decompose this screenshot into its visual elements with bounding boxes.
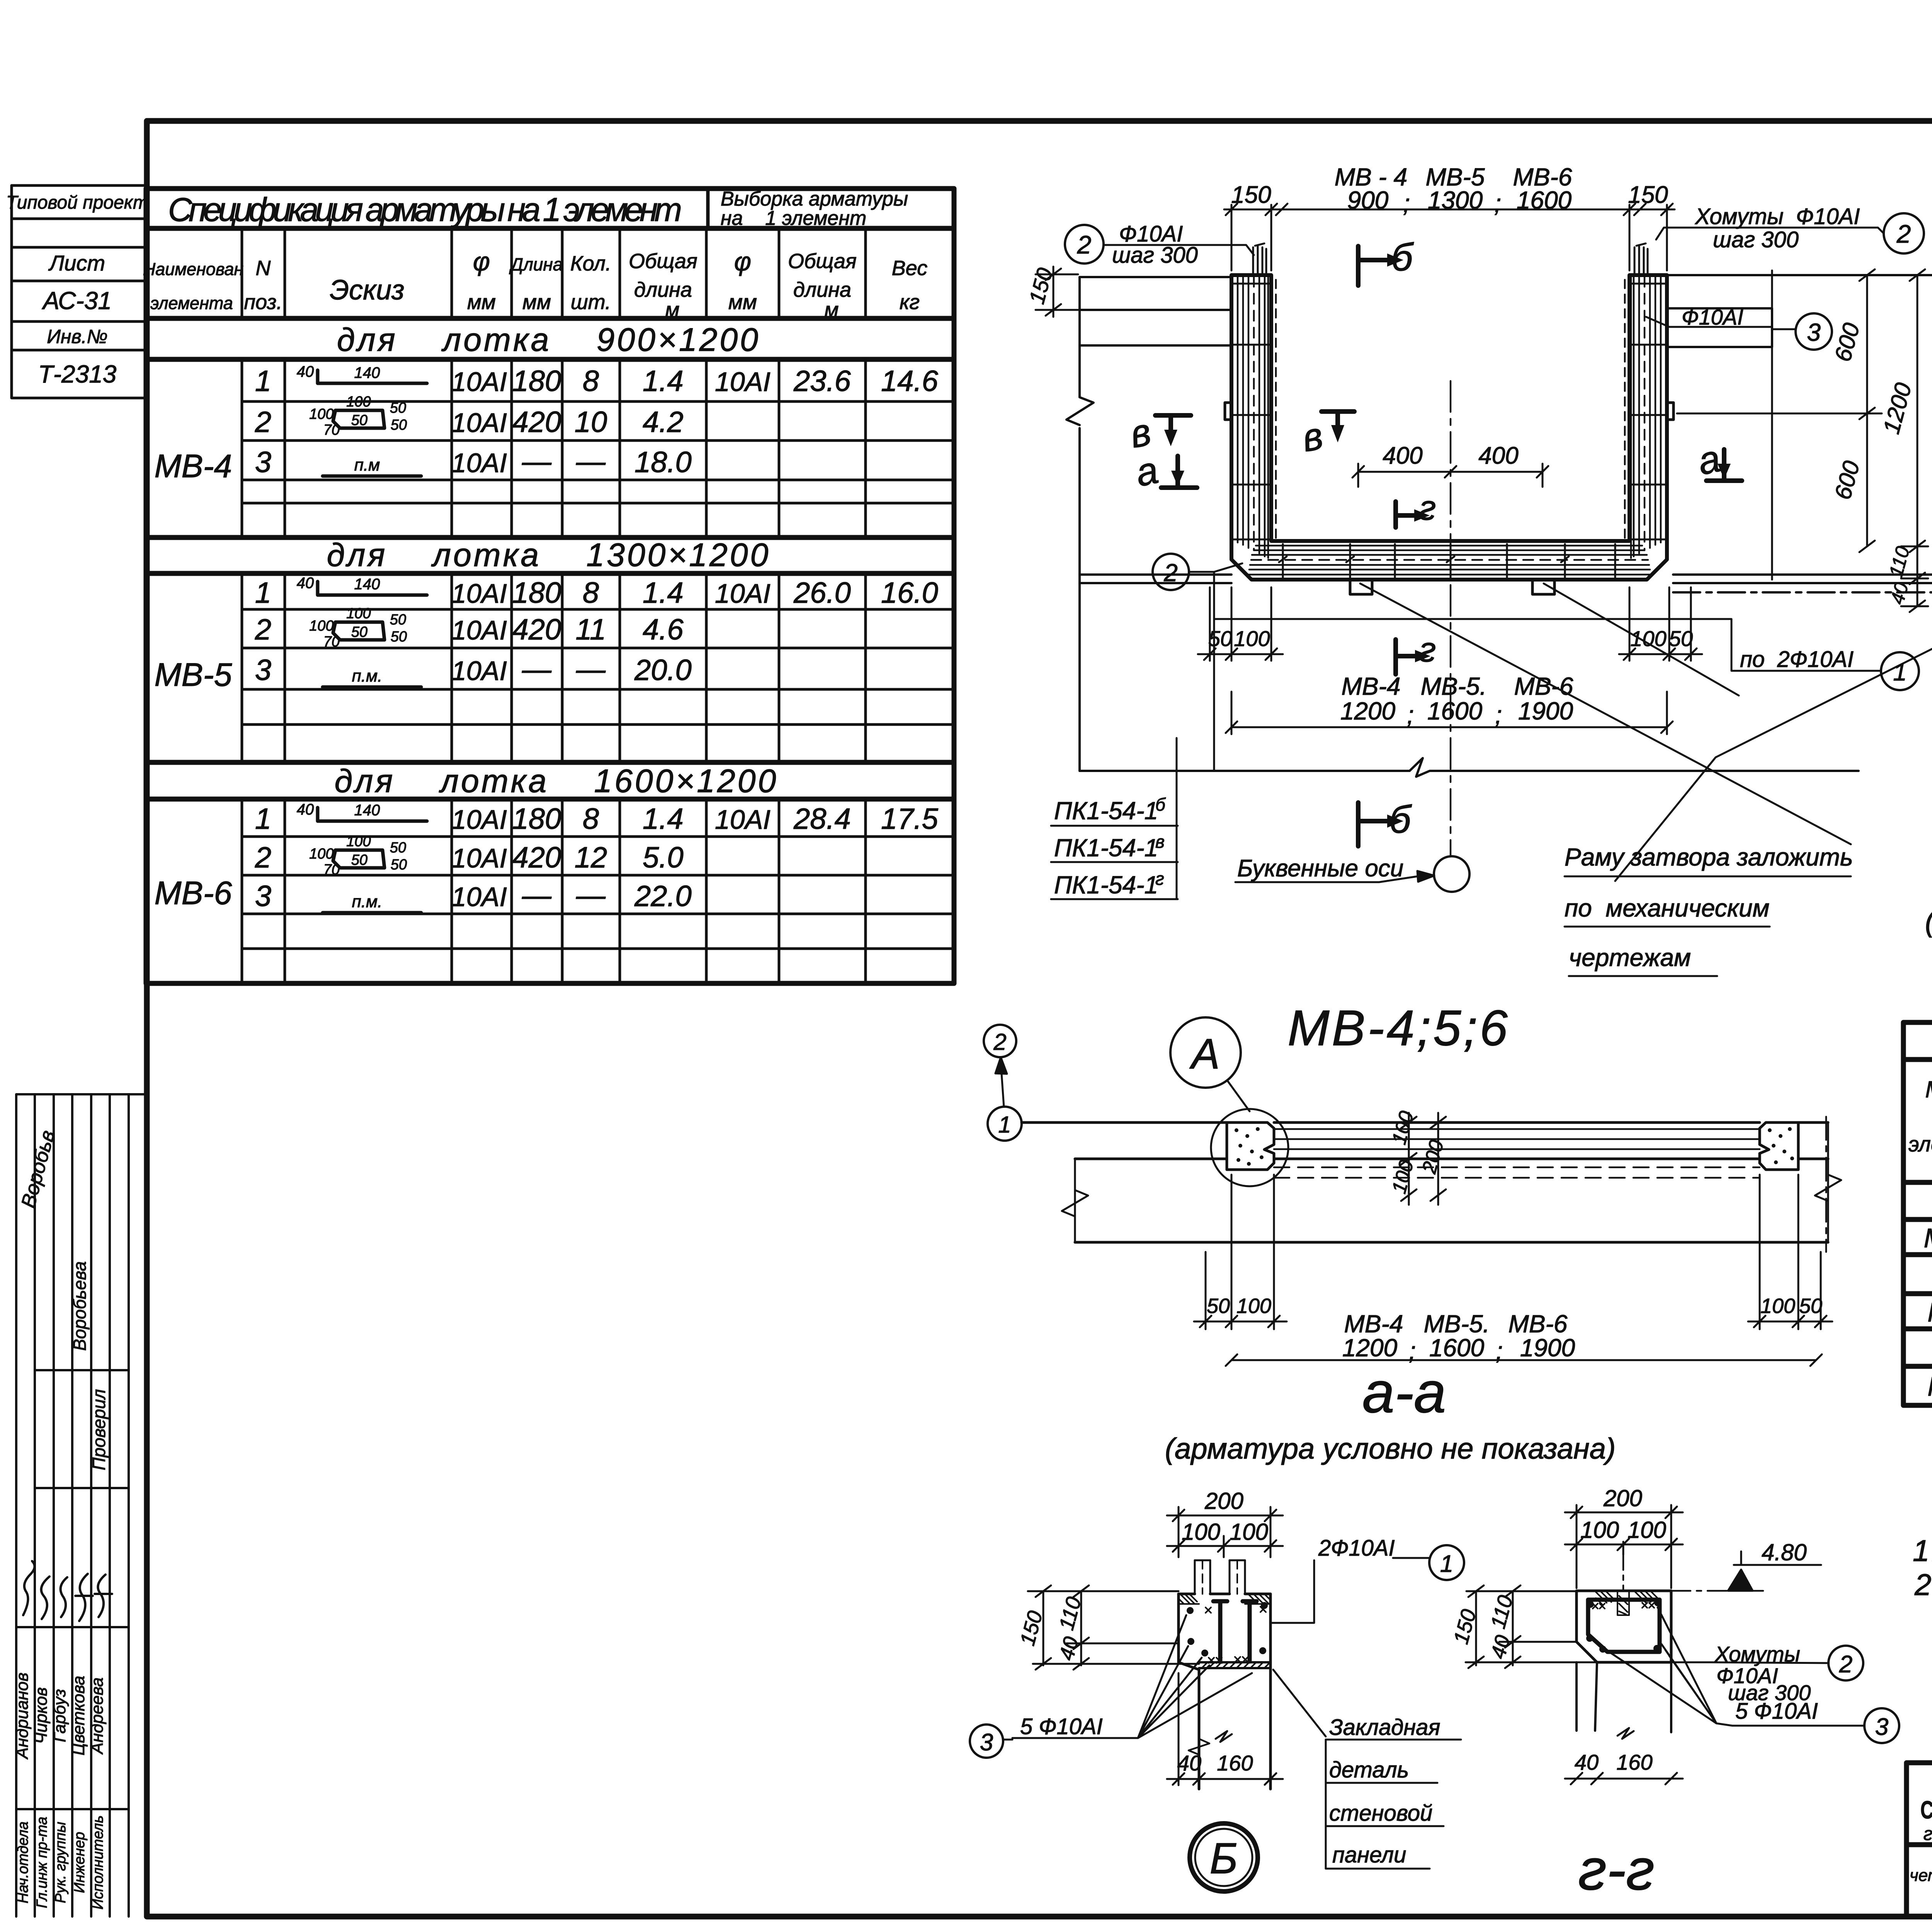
a-a bottom dims 50/100 left <box>1194 1175 1287 1329</box>
svg-text:в: в <box>1155 832 1165 852</box>
svg-text:140: 140 <box>354 802 380 819</box>
svg-text:40: 40 <box>1177 1751 1201 1775</box>
svg-text:50: 50 <box>390 612 406 628</box>
specification table: titles <box>168 188 908 230</box>
a-a bottom dims 100/50 right <box>1748 1175 1832 1329</box>
specification table: column headers <box>143 247 927 321</box>
svg-text:50: 50 <box>390 400 406 416</box>
B bottom hatch plate <box>1199 1662 1270 1668</box>
svg-text:МВ-6: МВ-6 <box>1514 672 1573 700</box>
top element labels <box>1335 163 1572 217</box>
svg-text:по 2Ф10АI: по 2Ф10АI <box>1740 647 1854 672</box>
svg-text:МВ-6: МВ-6 <box>1927 1371 1932 1401</box>
svg-text:420: 420 <box>512 613 561 646</box>
svg-text:2: 2 <box>255 406 271 439</box>
svg-text:МВ-5.: МВ-5. <box>1421 672 1487 700</box>
svg-text:50: 50 <box>351 412 367 429</box>
svg-text:70: 70 <box>323 634 340 650</box>
svg-text:400: 400 <box>1383 442 1422 469</box>
svg-text:МВ-5: МВ-5 <box>155 656 232 693</box>
svg-text:МВ-4;5;6: МВ-4;5;6 <box>1287 1000 1510 1056</box>
svg-text:14.6: 14.6 <box>881 365 939 398</box>
svg-text:100: 100 <box>1236 1294 1271 1318</box>
svg-text:элемента: элемента <box>1908 1132 1932 1156</box>
svg-text:длина: длина <box>793 278 851 301</box>
svg-text:п.м: п.м <box>354 456 380 474</box>
section marker v outside left <box>1155 415 1191 430</box>
svg-text:Общая: Общая <box>629 250 697 273</box>
svg-text:1200: 1200 <box>1340 697 1396 725</box>
B label 5F10AI (3) <box>970 1725 1003 1758</box>
svg-text:φ: φ <box>473 247 490 276</box>
svg-text:10АI: 10АI <box>715 367 770 397</box>
svg-text:г-г: г-г <box>1578 1837 1655 1902</box>
g-g bottom dims 40/160 <box>1565 1773 1683 1784</box>
svg-text:Нач.отдела: Нач.отдела <box>15 1821 31 1903</box>
svg-text:50: 50 <box>1207 1294 1230 1318</box>
section marker b top <box>1358 246 1387 286</box>
svg-text:160: 160 <box>1616 1750 1652 1774</box>
g-g rebar dots <box>1586 1599 1661 1653</box>
svg-text:поз.: поз. <box>244 291 282 314</box>
svg-text:п.м.: п.м. <box>352 667 383 685</box>
svg-text:1: 1 <box>1440 1551 1453 1577</box>
leaders to zatvor frame note <box>1360 583 1851 844</box>
svg-text:2: 2 <box>1839 1651 1852 1678</box>
svg-text:(арматура условно не показана): (арматура условно не показана) <box>1925 905 1932 938</box>
svg-text:3: 3 <box>255 446 271 479</box>
svg-text:—: — <box>576 879 606 912</box>
spec table MB-5 row data <box>255 577 938 687</box>
left stamp strip: top cells <box>12 185 146 398</box>
svg-text:100: 100 <box>309 406 333 422</box>
bottom dims 50/100 left <box>1198 587 1283 661</box>
a-a panel edges <box>1022 1122 1828 1242</box>
svg-text:г. Москва: г. Москва <box>1923 1824 1932 1844</box>
svg-text:50: 50 <box>351 852 367 868</box>
svg-text:б: б <box>1389 798 1412 841</box>
svg-text:Инв.№: Инв.№ <box>47 326 107 347</box>
U-channel concrete outline <box>1231 275 1667 580</box>
rebar ends above wall tops <box>1253 243 1648 275</box>
svg-text:50: 50 <box>351 624 367 640</box>
B top hatch strips <box>1179 1594 1270 1604</box>
Bukvennye osi label with circle <box>1235 871 1434 882</box>
svg-text:10АI: 10АI <box>451 367 507 397</box>
g-g top anchor hatch <box>1596 1591 1658 1615</box>
svg-text:10АI: 10АI <box>451 578 507 609</box>
svg-text:Андреева: Андреева <box>88 1677 107 1755</box>
svg-text:17.5: 17.5 <box>881 803 939 835</box>
svg-text:10АI: 10АI <box>451 448 507 478</box>
svg-text:140: 140 <box>354 364 380 381</box>
svg-text:панели: панели <box>1332 1842 1406 1867</box>
svg-text:200: 200 <box>1204 1488 1243 1514</box>
svg-text:Буквенные оси: Буквенные оси <box>1237 855 1403 882</box>
a-a overall dimension <box>1226 1354 1822 1366</box>
svg-text:12: 12 <box>575 841 607 874</box>
svg-text:100: 100 <box>346 605 371 622</box>
g-g label 5F10AI (3) <box>1864 1708 1899 1743</box>
signature squiggles <box>23 1561 112 1621</box>
svg-text:100: 100 <box>346 833 371 850</box>
svg-text:100: 100 <box>346 394 371 410</box>
svg-text:чертежам: чертежам <box>1569 944 1691 971</box>
svg-text:2. Защитный слой бетона – 2: 2. Защитный слой бетона – 25 мм. <box>1914 1568 1932 1602</box>
svg-text:1600: 1600 <box>1429 1334 1485 1362</box>
svg-text:40: 40 <box>297 363 314 380</box>
svg-text:1: 1 <box>255 365 271 398</box>
spec sketches pos.2 trapezoid bar (three blocks) <box>333 410 384 868</box>
svg-text:4.80: 4.80 <box>1762 1539 1807 1565</box>
section marker b bottom <box>1358 803 1387 846</box>
materials table: outer border and main rows <box>1903 1022 1932 1405</box>
svg-text:Т-2313: Т-2313 <box>38 360 117 388</box>
stirrup tick marks on walls and slab <box>1233 284 1666 577</box>
svg-text:;: ; <box>1496 1337 1503 1365</box>
svg-text:длина: длина <box>634 278 692 301</box>
specification table: outer border <box>146 189 954 983</box>
svg-text:на 1 элемент: на 1 элемент <box>721 207 866 230</box>
svg-text:3: 3 <box>1875 1714 1888 1740</box>
svg-text:4.6: 4.6 <box>643 613 684 646</box>
B bottom dims 40/160 <box>1167 1673 1283 1785</box>
svg-text:Вес: Вес <box>892 257 927 280</box>
g-g label stirrups (2) <box>1828 1646 1863 1680</box>
svg-text:160: 160 <box>1217 1751 1253 1775</box>
svg-text:2: 2 <box>255 613 271 646</box>
a-a axis circles <box>984 1025 1016 1057</box>
svg-text:кг: кг <box>900 291 920 314</box>
section marker v inside channel <box>1321 412 1354 425</box>
svg-text:420: 420 <box>512 406 561 439</box>
left break line vertical <box>1066 277 1094 771</box>
svg-text:элемента: элемента <box>150 293 233 313</box>
svg-text:1900: 1900 <box>1520 1334 1575 1362</box>
svg-text:100: 100 <box>1630 626 1666 651</box>
svg-text:стеновой: стеновой <box>1329 1801 1432 1826</box>
svg-text:180: 180 <box>512 803 561 835</box>
svg-text:ПК1-54-1: ПК1-54-1 <box>1054 871 1158 899</box>
svg-text:100: 100 <box>1760 1294 1795 1318</box>
svg-text:—: — <box>522 445 552 478</box>
label: po 2F10AI with circle 1 <box>1214 572 1881 771</box>
svg-text:100: 100 <box>1628 1517 1666 1543</box>
B embedded T-profiles <box>1213 1601 1257 1662</box>
svg-text:1.4: 1.4 <box>643 577 684 609</box>
PK1-54-1 labels <box>1051 738 1178 899</box>
specification table: section band labels <box>327 321 779 799</box>
svg-text:;: ; <box>1495 701 1502 729</box>
left 150 vertical dimension <box>1036 267 1078 317</box>
g-g dims top 200 and 100/100 <box>1565 1505 1683 1591</box>
svg-text:N: N <box>256 257 271 280</box>
materials table: data rows <box>1924 1221 1932 1401</box>
svg-text:4.2: 4.2 <box>643 406 684 439</box>
zatvor frame note text <box>1565 843 1853 971</box>
svg-text:18.0: 18.0 <box>634 446 692 479</box>
svg-text:шаг 300: шаг 300 <box>1112 243 1198 268</box>
svg-text:50: 50 <box>391 417 407 433</box>
centre axis dash-dot <box>1450 381 1452 855</box>
materials table: header texts <box>1908 1066 1932 1179</box>
svg-text:16.0: 16.0 <box>881 577 938 609</box>
svg-text:1.4: 1.4 <box>643 803 684 835</box>
svg-text:Цветкова: Цветкова <box>69 1676 88 1755</box>
label: stirrups right (2) Хомуты <box>1884 213 1924 253</box>
svg-text:28.4: 28.4 <box>793 803 851 835</box>
svg-text:10: 10 <box>575 406 607 439</box>
B rebar dots <box>1187 1602 1268 1656</box>
svg-text:φ: φ <box>734 247 751 276</box>
svg-text:8: 8 <box>583 803 599 835</box>
svg-text:100: 100 <box>309 846 333 862</box>
a-a detail circle A <box>1170 1017 1241 1088</box>
svg-text:11: 11 <box>576 613 606 646</box>
svg-text:п.м.: п.м. <box>352 892 383 911</box>
svg-text:1. Совместно с данным см.: 1. Совместно с данным см. л.л. АС-27÷29. <box>1913 1534 1932 1568</box>
specification table: element marks <box>155 448 232 911</box>
bottom overall dimension with labels <box>1226 692 1673 734</box>
svg-text:Гарбуз: Гарбуз <box>50 1689 69 1742</box>
svg-text:100: 100 <box>309 618 333 634</box>
svg-text:мм: мм <box>467 291 496 314</box>
g-g level mark 4.80 <box>1671 1551 1821 1591</box>
svg-text:Эскиз: Эскиз <box>330 275 404 306</box>
B zakladnaya label (4 lines) <box>1329 1715 1440 1867</box>
svg-text:Длина: Длина <box>509 254 563 274</box>
specification table: header band split <box>706 189 710 228</box>
svg-text:150: 150 <box>1628 182 1668 208</box>
wall and slab rebar lines <box>1238 277 1661 575</box>
svg-text:1200: 1200 <box>1342 1334 1398 1362</box>
svg-text:СОЮЗВОДОКАНАЛПРОЕКТ: СОЮЗВОДОКАНАЛПРОЕКТ <box>1920 1796 1932 1824</box>
top dimension: 150 / 900;1300;1600 / 150 <box>1224 204 1675 270</box>
a-a mid dimensions 100/100/200 <box>1401 1113 1446 1205</box>
section marker a inside right <box>1706 449 1742 481</box>
B detail circle caption <box>1190 1823 1258 1891</box>
svg-text:шаг 300: шаг 300 <box>1713 227 1799 252</box>
spec table MB-4 row data <box>255 365 939 479</box>
svg-text:—: — <box>576 653 606 686</box>
svg-text:5 Ф10АI: 5 Ф10АI <box>1020 1714 1103 1739</box>
svg-text:Закладная: Закладная <box>1329 1715 1440 1740</box>
svg-text:10АI: 10АI <box>451 882 507 912</box>
svg-text:50: 50 <box>1208 626 1232 651</box>
svg-text:ПК1-54-1: ПК1-54-1 <box>1054 797 1158 825</box>
svg-text:четырехкоридорные с размерами: четырехкоридорные с размерами <box>1910 1866 1932 1885</box>
svg-text:10АI: 10АI <box>451 804 507 835</box>
section marker g lower <box>1396 639 1415 674</box>
svg-text:МВ -4: МВ -4 <box>1924 1223 1932 1253</box>
svg-text:1600: 1600 <box>1427 697 1483 725</box>
adjacent panel edge lines left <box>1080 277 1231 583</box>
B block outline <box>1179 1594 1270 1789</box>
svg-text:мм: мм <box>728 291 757 314</box>
svg-text:900: 900 <box>1347 186 1389 214</box>
svg-text:Хомуты Ф10АI: Хомуты Ф10АI <box>1694 204 1860 229</box>
svg-text:420: 420 <box>512 841 561 874</box>
svg-text:г: г <box>1155 869 1164 889</box>
svg-text:10АI: 10АI <box>451 408 507 438</box>
svg-text:шт.: шт. <box>571 291 611 314</box>
svg-text:23.6: 23.6 <box>793 365 851 398</box>
section marker g upper <box>1396 502 1414 527</box>
svg-text:Ф10АI: Ф10АI <box>1682 305 1743 329</box>
spec sketches pos.1 bent bar (three blocks) <box>318 370 427 821</box>
circle 2 left <box>1065 225 1104 264</box>
g-g x-marks <box>1593 1603 1654 1609</box>
svg-text:50: 50 <box>391 857 407 873</box>
svg-text:100: 100 <box>1182 1519 1220 1545</box>
svg-text:г: г <box>1419 631 1436 669</box>
svg-text:1: 1 <box>998 1112 1011 1138</box>
svg-text:1: 1 <box>255 803 271 835</box>
svg-text:Типовой проект: Типовой проект <box>6 192 148 213</box>
svg-text:ПК1-54-1: ПК1-54-1 <box>1054 834 1158 862</box>
leaders from plug to detail G and notes <box>1615 576 1932 881</box>
svg-text:22.0: 22.0 <box>634 880 692 913</box>
g-g block outline <box>1577 1591 1671 1662</box>
svg-text:Андрианов: Андрианов <box>13 1673 32 1760</box>
svg-text:б: б <box>1391 236 1414 279</box>
svg-text:2: 2 <box>1077 230 1092 259</box>
svg-text:2: 2 <box>1896 219 1911 248</box>
svg-text:Инженер: Инженер <box>71 1832 88 1893</box>
svg-text:Наименован: Наименован <box>143 259 244 279</box>
adjacent panel edge lines right <box>1667 275 1932 592</box>
B break mark on right lower wall <box>1216 1731 1232 1742</box>
svg-text:5 Ф10АI: 5 Ф10АI <box>1735 1699 1818 1724</box>
svg-text:А: А <box>1189 1030 1219 1078</box>
svg-text:Кол.: Кол. <box>570 252 611 275</box>
B formwork slots above <box>1195 1560 1245 1594</box>
spec sketches pos.3 linear metre (three blocks) <box>323 476 421 913</box>
svg-text:3: 3 <box>980 1729 993 1756</box>
svg-text:мм: мм <box>522 291 551 314</box>
svg-text:для лотка 1300×1200: для лотка 1300×1200 <box>327 537 771 573</box>
svg-text:м: м <box>665 298 679 321</box>
svg-text:;: ; <box>1403 189 1410 217</box>
B left dims 150/110/40 <box>1028 1585 1199 1670</box>
svg-text:8: 8 <box>583 365 599 398</box>
bottom dims 100/50 right <box>1619 587 1702 661</box>
svg-text:2: 2 <box>255 841 271 874</box>
B x-marks <box>1206 1607 1266 1663</box>
svg-text:Б: Б <box>1210 1834 1238 1883</box>
svg-text:Чирков: Чирков <box>32 1687 51 1744</box>
svg-text:АС-31: АС-31 <box>41 287 112 315</box>
svg-text:Воробьева: Воробьева <box>70 1261 90 1351</box>
B dims top 200 and 100/100 <box>1167 1507 1283 1557</box>
svg-text:50: 50 <box>1669 626 1693 651</box>
svg-text:МВ-5: МВ-5 <box>1927 1297 1932 1327</box>
svg-text:2Ф10АI: 2Ф10АI <box>1318 1536 1395 1561</box>
B label 2F10AI (1) top right <box>1429 1545 1464 1580</box>
svg-text:МВ-6: МВ-6 <box>155 875 232 911</box>
a-a beam bars <box>1274 1129 1760 1178</box>
svg-text:—: — <box>522 879 552 912</box>
label: (3) F10AI right <box>1796 313 1832 350</box>
svg-text:150: 150 <box>1231 182 1271 208</box>
long joint line with break <box>1080 758 1859 777</box>
svg-text:8: 8 <box>583 577 599 609</box>
right leader vertical from stirrup label <box>1771 270 1773 580</box>
svg-text:140: 140 <box>354 576 380 593</box>
svg-text:МВ-4: МВ-4 <box>1342 672 1401 700</box>
specification table: inner grid <box>242 228 954 983</box>
svg-text:Раму затвора заложить: Раму затвора заложить <box>1565 843 1853 871</box>
svg-text:—: — <box>522 653 552 686</box>
svg-text:10АI: 10АI <box>451 656 507 686</box>
svg-text:1600: 1600 <box>1517 186 1572 214</box>
svg-text:Лист: Лист <box>48 251 105 275</box>
svg-text:—: — <box>576 445 606 478</box>
g-g left dims 150/110/40 <box>1466 1585 1597 1668</box>
svg-text:50: 50 <box>390 840 406 856</box>
svg-text:2: 2 <box>1163 559 1178 587</box>
svg-text:5.0: 5.0 <box>643 841 684 874</box>
svg-text:;: ; <box>1494 189 1501 217</box>
section marker a outside left <box>1161 456 1197 488</box>
svg-text:10АI: 10АI <box>451 615 507 645</box>
svg-text:(арматура условно не показана): (арматура условно не показана) <box>1165 1432 1616 1465</box>
svg-text:б: б <box>1155 794 1166 815</box>
svg-text:40: 40 <box>297 575 314 592</box>
svg-text:Рук. группы: Рук. группы <box>53 1822 69 1903</box>
svg-text:50: 50 <box>1799 1294 1822 1318</box>
svg-text:Марка: Марка <box>1925 1077 1932 1102</box>
svg-text:10АI: 10АI <box>715 578 770 609</box>
g-g stirrup thick rounded <box>1588 1600 1660 1652</box>
left stamp strip: rotated signature table <box>16 1094 146 1917</box>
svg-text:100: 100 <box>1234 626 1270 651</box>
spec table MB-6 row data <box>255 803 939 913</box>
svg-text:г: г <box>1419 489 1436 527</box>
svg-text:2: 2 <box>993 1029 1006 1055</box>
title block <box>1906 1763 1932 1917</box>
svg-text:Спецификация арматуры на 1 эле: Спецификация арматуры на 1 элемент <box>168 191 682 228</box>
svg-text:а-а: а-а <box>1362 1360 1446 1425</box>
svg-text:1: 1 <box>255 577 271 609</box>
svg-text:50: 50 <box>391 629 407 645</box>
svg-text:по механическим: по механическим <box>1565 894 1769 922</box>
embedded tabs under slab and on wall faces <box>1225 403 1673 594</box>
svg-text:для лотка 1600×1200: для лотка 1600×1200 <box>335 763 779 799</box>
svg-text:70: 70 <box>323 422 340 438</box>
svg-text:70: 70 <box>323 862 340 878</box>
svg-text:1300: 1300 <box>1428 186 1483 214</box>
label: (2) bottom left slab <box>1153 554 1189 590</box>
svg-text:3: 3 <box>1807 318 1821 346</box>
svg-text:26.0: 26.0 <box>793 577 851 609</box>
dimension 400/400 <box>1352 464 1548 487</box>
svg-text:400: 400 <box>1478 442 1518 469</box>
svg-text:100: 100 <box>1230 1519 1268 1545</box>
svg-text:180: 180 <box>512 365 561 398</box>
a-a insert blocks with stipple <box>1227 1122 1798 1170</box>
svg-text:20.0: 20.0 <box>634 654 692 687</box>
svg-text:200: 200 <box>1603 1485 1642 1511</box>
svg-text:3: 3 <box>255 880 271 913</box>
svg-text:;: ; <box>1407 701 1414 729</box>
svg-text:деталь: деталь <box>1329 1757 1409 1782</box>
g-g lower wall lines and break <box>1577 1662 1671 1739</box>
svg-text:40: 40 <box>297 801 314 818</box>
svg-text:Исполнитель: Исполнитель <box>90 1815 106 1910</box>
svg-text:10АI: 10АI <box>715 804 770 835</box>
svg-text:для лотка 900×1200: для лотка 900×1200 <box>337 321 760 358</box>
